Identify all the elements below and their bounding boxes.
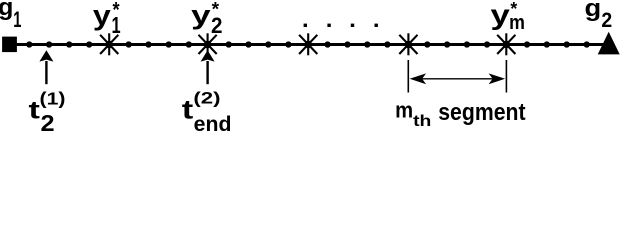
svg-text:y: y: [191, 0, 211, 30]
svg-text:m: m: [509, 12, 525, 34]
svg-text:2: 2: [601, 9, 612, 32]
svg-text:y: y: [490, 0, 510, 30]
svg-text:1: 1: [112, 13, 121, 38]
svg-text:g: g: [0, 0, 13, 21]
svg-text:(1): (1): [40, 89, 66, 109]
svg-text:th: th: [413, 112, 431, 130]
svg-text:2: 2: [41, 111, 55, 132]
svg-text:(2): (2): [193, 89, 220, 108]
svg-text:1: 1: [13, 7, 21, 32]
svg-text:segment: segment: [438, 99, 526, 125]
svg-text:y: y: [93, 1, 111, 31]
svg-text:t: t: [29, 97, 40, 125]
svg-text:t: t: [182, 94, 193, 124]
svg-text:end: end: [194, 112, 232, 132]
svg-text:2: 2: [211, 12, 222, 38]
svg-text:g: g: [585, 0, 602, 22]
svg-text:m: m: [395, 97, 413, 122]
